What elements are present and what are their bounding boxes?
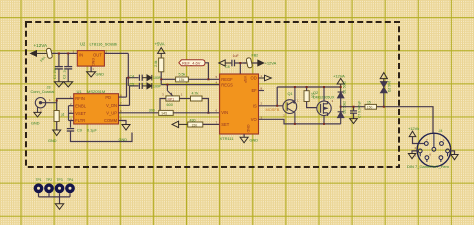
svg-text:TP4: TP4: [67, 178, 73, 182]
wire input rail to U2 IN: [50, 52, 77, 54]
svg-text:PD: PD: [105, 95, 111, 100]
svg-text:15k: 15k: [179, 78, 185, 82]
transistor Q1: [283, 87, 297, 124]
svg-text:TP3: TP3: [57, 178, 63, 182]
svg-text:+5VA: +5VA: [155, 42, 165, 47]
wire DIN left gnd: [412, 151, 419, 154]
svg-text:RFIN: RFIN: [75, 96, 85, 101]
junction rail Q1 emitter: [294, 86, 296, 88]
pin numbers U1: [70, 93, 122, 121]
capacitor C7: [350, 107, 357, 119]
svg-text:430: 430: [190, 118, 196, 122]
svg-text:D1 5082: D1 5082: [343, 81, 347, 94]
junction VIN rail left: [159, 112, 161, 114]
wire 4.7k to VIN rail: [202, 99, 208, 113]
svg-text:C9: C9: [77, 129, 82, 133]
wire vertical 5V drop: [127, 53, 129, 86]
svg-text:2.4k: 2.4k: [154, 60, 158, 67]
EF pin lead: [259, 90, 265, 92]
svg-text:V_UP: V_UP: [106, 111, 117, 116]
junction trimmer/REGS: [166, 84, 168, 86]
junction J3: [56, 100, 58, 102]
fuse FB2: [246, 57, 253, 68]
wire DIN 12V pin: [413, 137, 425, 144]
junction REGF net: [160, 78, 162, 80]
junction EF riser: [276, 105, 278, 107]
wire 945 to XTR VIN: [173, 112, 219, 114]
wire cap C1 stem: [58, 53, 60, 66]
svg-text:150: 150: [367, 106, 373, 110]
svg-text:U2: U2: [80, 42, 86, 47]
svg-text:EF: EF: [251, 88, 257, 93]
svg-text:1uF: 1uF: [233, 54, 240, 58]
svg-text:J3: J3: [47, 86, 51, 90]
junction REF/REGF: [207, 78, 209, 80]
svg-text:SET: SET: [221, 122, 229, 127]
svg-text:OD: OD: [251, 76, 257, 81]
svg-text:GND: GND: [31, 122, 40, 126]
wire DIN right gnd: [449, 151, 455, 155]
svg-text:TP1: TP1: [36, 178, 42, 182]
svg-text:Q2: Q2: [313, 91, 318, 95]
svg-text:Conn_Coaxial: Conn_Coaxial: [31, 90, 55, 94]
mosfet Q2: [317, 101, 331, 116]
svg-text:DZ 5V6: DZ 5V6: [388, 81, 392, 92]
svg-text:J4: J4: [439, 129, 443, 133]
wire EF riser to rail: [276, 87, 278, 106]
port arrow +12VA left: [31, 51, 51, 57]
svg-text:150: 150: [192, 123, 198, 127]
svg-text:Q1: Q1: [288, 92, 293, 96]
svg-text:REF_4.6V: REF_4.6V: [182, 60, 201, 65]
svg-text:+12Vk: +12Vk: [408, 126, 419, 131]
svg-text:FB2: FB2: [252, 54, 259, 58]
protection diode pair: [381, 81, 387, 107]
capacitor C9: [67, 129, 74, 131]
connector DIN circle: [417, 133, 451, 167]
junction diodes mid: [340, 106, 342, 108]
junction diode pair: [383, 106, 385, 108]
ground DIN right: [451, 155, 458, 160]
labels TP: [36, 178, 74, 182]
connector J3 coax: [35, 98, 56, 113]
wire R to gnd: [56, 122, 58, 131]
wire cap C2 stem: [67, 53, 69, 66]
ground COMM: [122, 125, 130, 131]
wire R2.4k down to REGF/REGS: [161, 72, 219, 85]
DIN pin stubs: [420, 133, 447, 162]
svg-text:VSET: VSET: [75, 111, 86, 116]
svg-text:FLTR: FLTR: [75, 118, 85, 123]
ground under C2: [64, 82, 73, 87]
capacitor C5: [139, 83, 142, 89]
ground DIN left: [408, 154, 415, 159]
rail +12VA horizontal: [277, 86, 341, 88]
wire trimmer left to VIN rail: [160, 99, 166, 113]
IS wire to Q1 base: [259, 105, 284, 107]
port arrow right +12VA: [258, 60, 264, 66]
junction C7: [353, 106, 355, 108]
svg-text:C2 .1u: C2 .1u: [63, 69, 67, 79]
regulator U2: [77, 51, 104, 67]
net label REF_4.6V: [179, 60, 205, 66]
svg-text:TP2: TP2: [46, 178, 52, 182]
svg-text:GND: GND: [91, 58, 95, 66]
capacitor C1: [55, 67, 63, 69]
diode D2: [338, 107, 344, 124]
svg-text:+12VA: +12VA: [34, 43, 49, 48]
svg-text:GND: GND: [48, 139, 57, 143]
VO wire to bottom rail: [259, 119, 341, 124]
ground under XTR111: [243, 134, 245, 137]
diode D1: [338, 92, 344, 107]
svg-text:C7 0.047uF: C7 0.047uF: [358, 101, 362, 118]
junction rail Q2 source: [323, 86, 325, 88]
resistor 150 output: [365, 104, 377, 109]
ground under R: [53, 130, 61, 136]
wire J3 to RFIN: [57, 99, 74, 111]
junction 5V rail: [127, 77, 129, 79]
OD pin lead + open arrow: [259, 75, 272, 81]
wire resistor leads: [307, 87, 317, 108]
wires Q2 source/drain: [323, 87, 325, 124]
power arrow DIN: [409, 131, 416, 136]
DIN pin numbers: [415, 138, 452, 158]
svg-text:VO: VO: [251, 117, 257, 122]
capacitor C8: [232, 60, 235, 67]
U1 right pin leads: [119, 78, 159, 113]
U1 COMM to ground: [119, 121, 127, 125]
DIN pins: [418, 142, 449, 160]
header pads: [34, 183, 75, 193]
svg-text:+12VA: +12VA: [333, 73, 345, 78]
resistor 15k: [176, 77, 189, 82]
ground header: [55, 204, 63, 210]
resistor 945: [159, 110, 174, 115]
junction bottom Q1 collector: [294, 123, 296, 125]
power arrow +12VA rail: [337, 78, 344, 91]
junction rail/resistor: [306, 86, 308, 88]
svg-text:ENBL: ENBL: [75, 103, 86, 108]
IC U1: [74, 94, 119, 124]
wire 15k to REGF pin: [188, 78, 219, 80]
svg-text:GND: GND: [119, 138, 128, 142]
power arrow +5VA: [158, 48, 165, 58]
SET branch: open arrow left: [172, 121, 188, 127]
output wire to DIN: [341, 107, 433, 134]
trimmer RP1: [166, 85, 180, 102]
svg-text:C1 10u: C1 10u: [53, 68, 57, 79]
fuse F1: [46, 48, 53, 59]
ground under U2: [87, 72, 96, 77]
svg-text:5.5k: 5.5k: [179, 73, 186, 77]
svg-text:IN: IN: [79, 53, 83, 58]
junction VSP: [239, 62, 241, 64]
capacitor C2: [64, 67, 72, 69]
svg-text:REGF: REGF: [221, 77, 233, 82]
port arrow after C5: [142, 83, 152, 89]
resistor R termination: [54, 111, 59, 122]
ground under C1: [54, 82, 63, 87]
wire C9 bottom to gnd run: [71, 131, 133, 142]
svg-text:300: 300: [149, 109, 155, 113]
dashed board outline: [26, 22, 399, 167]
svg-text:+12VA: +12VA: [265, 61, 277, 66]
wire U2 gnd stem: [90, 66, 92, 72]
wire trimmer right to 4.7k: [179, 98, 190, 100]
svg-text:GND: GND: [96, 72, 105, 76]
resistor gate pull vertical: [304, 91, 309, 102]
svg-text:51: 51: [61, 113, 65, 117]
port arrow left VSP: [219, 60, 232, 66]
svg-text:VIN: VIN: [221, 110, 228, 115]
resistor 4.7k: [191, 96, 203, 101]
pin numbers XTR111: [216, 74, 263, 124]
svg-text:GND: GND: [250, 139, 259, 143]
junction dots input rail: [58, 52, 69, 54]
U1 left pin leads: [69, 106, 74, 128]
power arrow above diode pair: [380, 73, 387, 82]
svg-text:C8: C8: [225, 65, 230, 69]
junction 4.7k/VIN: [207, 112, 209, 114]
svg-text:OUT: OUT: [93, 53, 102, 58]
svg-text:REGS: REGS: [221, 82, 233, 87]
header gnd bus: [39, 193, 71, 204]
svg-text:LT8116_SO8db: LT8116_SO8db: [90, 42, 118, 47]
svg-text:15: 15: [367, 100, 371, 104]
svg-text:XTR111: XTR111: [220, 136, 235, 141]
svg-text:RP1: RP1: [168, 97, 175, 101]
svg-text:C4: C4: [130, 74, 135, 78]
capacitor C4: [139, 75, 142, 81]
resistor R 2.4k vertical: [159, 58, 164, 72]
svg-text:IS: IS: [253, 103, 257, 108]
ground under C7: [350, 119, 358, 124]
wire C8 to FB2: [235, 63, 260, 74]
svg-text:GND: GND: [246, 125, 250, 133]
svg-text:V_DN: V_DN: [106, 103, 117, 108]
svg-text:C5: C5: [130, 83, 135, 87]
resistor 150 SET: [188, 122, 203, 127]
svg-text:100P: 100P: [153, 84, 162, 88]
svg-text:0.1µF: 0.1µF: [87, 129, 97, 133]
wire REF to REGF: [205, 63, 208, 80]
svg-text:DIN 7_GamePinT_Fem: DIN 7_GamePinT_Fem: [407, 164, 449, 169]
svg-text:945: 945: [162, 112, 168, 116]
wire U2 OUT to right: [104, 52, 128, 54]
wire SET resistor to pin: [203, 123, 220, 125]
junction bottom Q2 drain: [323, 123, 325, 125]
svg-text:VSP: VSP: [243, 76, 247, 84]
port arrow after C4: [142, 75, 152, 81]
junction rail 12V: [340, 86, 342, 88]
svg-text:COMM: COMM: [104, 118, 118, 123]
svg-text:600: 600: [167, 103, 173, 107]
svg-text:4.7k: 4.7k: [192, 92, 199, 96]
svg-text:MOSFB: MOSFB: [266, 107, 280, 112]
ground J3 shield: [34, 112, 41, 117]
